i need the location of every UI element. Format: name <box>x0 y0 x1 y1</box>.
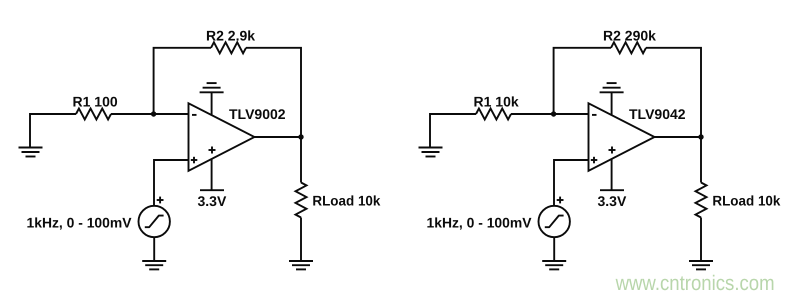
ground GND1 (input ground, left circuit) <box>19 148 43 157</box>
node C (inverting input junction, right) <box>551 111 556 116</box>
resistor R2 <box>211 42 246 53</box>
wire input-to-R1 (right) <box>430 114 476 148</box>
wire noninverting input <box>154 160 189 206</box>
wire feedback left vertical (right) <box>554 48 611 114</box>
wire output <box>255 136 302 138</box>
wire output-to-RLoad (right) <box>700 137 702 183</box>
source V1 circle <box>139 206 170 237</box>
svg-text:3.3V: 3.3V <box>198 193 227 209</box>
svg-text:1kHz, 0 - 100mV: 1kHz, 0 - 100mV <box>427 215 533 231</box>
resistor RLoad (right) <box>696 183 707 218</box>
pin V- wire (top supply) U1 <box>211 92 213 115</box>
pin V- wire (top supply) U2 <box>611 92 613 115</box>
ground (below RLoad, left) <box>289 261 313 269</box>
svg-text:1kHz, 0 - 100mV: 1kHz, 0 - 100mV <box>27 215 133 231</box>
ground (op-amp top supply, flipped up) <box>200 83 224 92</box>
source V2 polarity plus <box>557 197 564 204</box>
supply rail bar 3.3V <box>200 189 224 191</box>
pin plus symbol U2 <box>591 157 598 164</box>
node B (output junction) <box>298 134 303 139</box>
svg-text:R1 10k: R1 10k <box>474 94 519 110</box>
svg-text:R2 290k: R2 290k <box>603 28 656 44</box>
wire source-to-ground <box>153 237 155 261</box>
supply plus symbol U1 <box>209 147 216 154</box>
source V2 circle <box>539 206 570 237</box>
resistor R2 (right) <box>611 42 646 53</box>
wire source-to-ground (right) <box>553 237 555 261</box>
svg-text:3.3V: 3.3V <box>598 193 627 209</box>
source V2 ramp waveform <box>545 216 564 228</box>
svg-text:RLoad 10k: RLoad 10k <box>712 193 780 209</box>
source V1 ramp waveform <box>145 216 164 228</box>
wire R1-to-inverting-node (right) <box>511 113 589 115</box>
pin plus symbol U1 <box>191 157 198 164</box>
op-amp U1 TLV9002 <box>189 103 255 171</box>
wire feedback top right (right) <box>646 48 701 137</box>
op-amp U2 TLV9042 <box>589 103 655 171</box>
svg-text:TLV9042: TLV9042 <box>629 106 686 122</box>
ground (below source, right) <box>542 261 566 269</box>
resistor R1 (right) <box>476 109 511 120</box>
supply plus symbol U2 <box>609 147 616 154</box>
wire R1-to-inverting-node <box>111 113 189 115</box>
ground (below RLoad, right) <box>689 261 713 269</box>
wire feedback top right <box>246 48 301 137</box>
pin V+ wire (bottom supply) U1 <box>211 159 213 190</box>
source V1 polarity plus <box>157 197 164 204</box>
pin minus symbol U1 <box>192 114 197 116</box>
svg-text:www.cntronics.com: www.cntronics.com <box>615 272 775 295</box>
ground GND2 (input ground, right circuit) <box>419 148 443 157</box>
node D (output junction, right) <box>698 134 703 139</box>
svg-text:RLoad 10k: RLoad 10k <box>312 193 380 209</box>
ground (op-amp top supply, flipped up, right) <box>600 83 624 92</box>
resistor R1 <box>76 109 111 120</box>
wire noninverting input (right) <box>554 160 589 206</box>
wire RLoad-to-ground <box>300 218 302 262</box>
wire output-to-RLoad <box>300 137 302 183</box>
pin minus symbol U2 <box>592 114 597 116</box>
svg-text:R2 2.9k: R2 2.9k <box>206 28 255 44</box>
supply rail bar 3.3V (right) <box>600 189 624 191</box>
svg-text:R1 100: R1 100 <box>73 94 118 110</box>
ground (below source, left) <box>142 261 166 269</box>
node A (inverting input junction) <box>151 111 156 116</box>
wire feedback left vertical <box>154 48 211 114</box>
pin V+ wire (bottom supply) U2 <box>611 159 613 190</box>
wire output (right) <box>655 136 702 138</box>
svg-text:TLV9002: TLV9002 <box>229 106 286 122</box>
wire RLoad-to-ground (right) <box>700 218 702 262</box>
wire input-to-R1 <box>30 114 76 148</box>
resistor RLoad (left) <box>296 183 307 218</box>
